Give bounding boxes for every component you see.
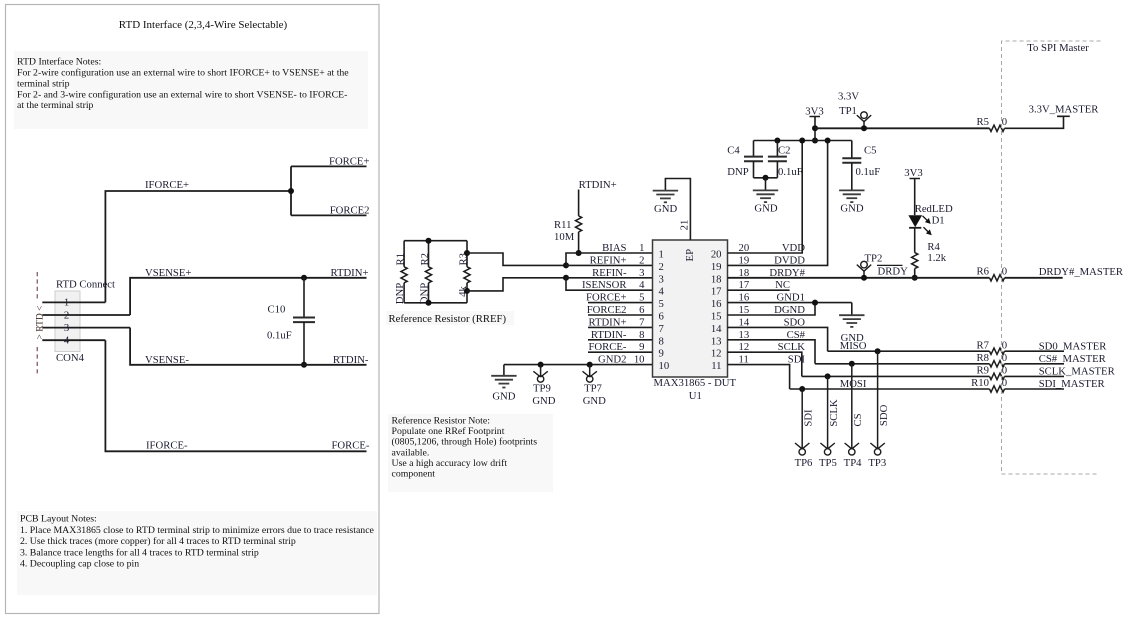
svg-text:MOSI: MOSI xyxy=(840,378,867,390)
test point TP4 CS xyxy=(851,364,853,449)
svg-text:Reference Resistor Note:: Reference Resistor Note: xyxy=(392,415,490,426)
svg-text:20: 20 xyxy=(711,249,722,261)
svg-text:Use a high accuracy low drift: Use a high accuracy low drift xyxy=(392,458,508,469)
wire R5 to 3.3V_MASTER xyxy=(1005,116,1064,128)
svg-text:0: 0 xyxy=(1002,352,1007,364)
junction C10 top xyxy=(301,275,307,281)
svg-text:3. Balance trace lengths for a: 3. Balance trace lengths for all 4 trace… xyxy=(20,547,259,558)
svg-text:4: 4 xyxy=(659,286,665,298)
junction TP6 on SDI xyxy=(799,386,805,392)
junction DVDD rail2 xyxy=(825,138,831,144)
junction TP1 xyxy=(861,125,867,131)
svg-text:1: 1 xyxy=(64,297,69,309)
svg-text:D1: D1 xyxy=(932,215,945,227)
svg-text:2: 2 xyxy=(64,309,69,321)
wire decoupling rail xyxy=(754,140,852,142)
svg-text:IFORCE+: IFORCE+ xyxy=(145,179,189,191)
svg-text:TP2: TP2 xyxy=(865,253,883,265)
ground EP xyxy=(653,190,678,192)
svg-text:IFORCE-: IFORCE- xyxy=(146,439,188,451)
svg-text:DNP: DNP xyxy=(394,283,406,304)
svg-text:RedLED: RedLED xyxy=(915,203,953,215)
svg-text:ISENSOR: ISENSOR xyxy=(582,279,627,291)
svg-text:C10: C10 xyxy=(268,304,286,316)
svg-text:C2: C2 xyxy=(778,145,790,157)
wire ISENSOR pin4 xyxy=(566,278,653,290)
svg-text:terminal strip: terminal strip xyxy=(17,78,70,89)
svg-text:TP5: TP5 xyxy=(819,457,837,469)
svg-text:SDI_MASTER: SDI_MASTER xyxy=(1039,378,1106,390)
svg-text:7: 7 xyxy=(639,316,645,328)
capacitor C4 xyxy=(753,141,755,157)
dashed box To SPI Master xyxy=(1002,41,1101,474)
svg-text:REFIN+: REFIN+ xyxy=(590,254,627,266)
svg-text:10: 10 xyxy=(659,360,670,372)
svg-text:2. Use thick traces (more copp: 2. Use thick traces (more copper) for al… xyxy=(20,536,296,547)
resistor network top rail xyxy=(404,240,467,242)
svg-text:CS: CS xyxy=(852,413,864,426)
junction C10 bottom xyxy=(301,362,307,368)
svg-text:0: 0 xyxy=(1002,365,1007,377)
ground C4C2 xyxy=(765,178,767,191)
junction R3 bottom tap xyxy=(464,288,470,294)
svg-text:0: 0 xyxy=(1002,266,1007,278)
svg-text:RTDIN+: RTDIN+ xyxy=(588,316,626,328)
resistor network bottom rail xyxy=(404,302,467,304)
svg-text:1: 1 xyxy=(639,242,644,254)
svg-text:3: 3 xyxy=(639,267,644,279)
svg-text:> RTD <: > RTD < xyxy=(36,306,46,340)
svg-text:FORCE2: FORCE2 xyxy=(330,205,370,217)
svg-text:R1: R1 xyxy=(395,253,407,265)
svg-text:SD0_MASTER: SD0_MASTER xyxy=(1039,340,1108,352)
svg-text:MISO: MISO xyxy=(840,340,867,352)
wire VSENSE- / RTDIN- net xyxy=(130,328,366,365)
junction TP4 on CS xyxy=(849,361,855,367)
svg-text:For 2-wire configuration use a: For 2-wire configuration use an external… xyxy=(17,67,349,78)
svg-text:C5: C5 xyxy=(864,145,876,157)
svg-text:CS#_MASTER: CS#_MASTER xyxy=(1039,353,1107,365)
op IC U1 body MAX31865 xyxy=(653,240,728,377)
wire FORCE+ stub xyxy=(291,165,367,167)
svg-text:SDI: SDI xyxy=(803,409,815,427)
wire DRDY# pin18 row xyxy=(728,277,990,279)
svg-text:8: 8 xyxy=(639,329,644,341)
svg-text:MAX31865 - DUT: MAX31865 - DUT xyxy=(654,377,737,389)
wire VSENSE+ / RTDIN+ net xyxy=(130,278,366,315)
svg-text:available.: available. xyxy=(392,447,430,458)
svg-text:3.3V_MASTER: 3.3V_MASTER xyxy=(1029,104,1100,116)
wire IFORCE+ net xyxy=(105,191,291,302)
PCB layout notes text block xyxy=(17,511,377,595)
junction 3V3 rail2 xyxy=(812,138,818,144)
resistor R5 xyxy=(990,125,1005,131)
svg-text:R6: R6 xyxy=(977,266,990,278)
wire NC pin17 stub xyxy=(728,289,790,291)
test point TP3 SDO xyxy=(877,351,879,449)
svg-text:17: 17 xyxy=(711,286,722,298)
svg-text:1.2k: 1.2k xyxy=(927,252,946,264)
wire REFIN- pin3 stub xyxy=(566,277,653,279)
resistor R11 xyxy=(578,190,580,216)
resistor R6 xyxy=(990,275,1005,281)
svg-text:16: 16 xyxy=(711,298,722,310)
junction R11 to BIAS xyxy=(576,250,582,256)
IC exposed pad EP wire pin 21 to GND xyxy=(665,179,690,241)
resistor R1 xyxy=(403,241,405,267)
RTD interface section border box xyxy=(6,5,380,614)
wire CON4 pin3 xyxy=(42,327,130,329)
LED D1 RedLED xyxy=(908,215,922,227)
svg-text:PCB Layout Notes:: PCB Layout Notes: xyxy=(20,514,97,525)
svg-text:Populate one RRef Footprint: Populate one RRef Footprint xyxy=(392,426,505,437)
svg-text:R5: R5 xyxy=(977,116,989,128)
wire CON4 pin4 xyxy=(42,339,105,341)
svg-text:DRDY#_MASTER: DRDY#_MASTER xyxy=(1039,266,1124,278)
wire BIAS pin1 xyxy=(566,253,653,265)
junction TP3 on MISO xyxy=(875,348,881,354)
svg-text:10M: 10M xyxy=(554,231,575,243)
svg-text:2: 2 xyxy=(639,254,644,266)
svg-text:For 2- and 3-wire configuratio: For 2- and 3-wire configuration use an e… xyxy=(17,89,347,100)
svg-text:RTDIN-: RTDIN- xyxy=(333,354,369,366)
svg-text:SCLK_MASTER: SCLK_MASTER xyxy=(1039,365,1116,377)
svg-text:FORCE+: FORCE+ xyxy=(329,156,369,168)
svg-text:TP1: TP1 xyxy=(839,105,857,117)
svg-text:GND: GND xyxy=(654,203,677,215)
svg-text:To SPI Master: To SPI Master xyxy=(1027,42,1089,54)
resistor R8 xyxy=(990,361,1005,367)
svg-text:0: 0 xyxy=(1002,340,1007,352)
svg-text:VSENSE-: VSENSE- xyxy=(145,354,189,366)
test point TP5 SCLK xyxy=(827,376,829,449)
test point TP9 xyxy=(538,362,544,368)
svg-text:11: 11 xyxy=(711,360,721,372)
wire DVDD pin19 to rail xyxy=(728,141,828,266)
svg-text:1: 1 xyxy=(659,249,664,261)
svg-text:RTDIN+: RTDIN+ xyxy=(330,267,368,279)
svg-text:4. Decoupling cap close to pin: 4. Decoupling cap close to pin xyxy=(20,559,139,570)
svg-text:6: 6 xyxy=(639,304,645,316)
svg-text:(0805,1206, through Hole) foot: (0805,1206, through Hole) footprints xyxy=(392,437,538,448)
svg-text:7: 7 xyxy=(659,323,665,335)
svg-text:6: 6 xyxy=(659,311,665,323)
wire GND1 pin16 xyxy=(728,302,852,304)
svg-text:FORCE+: FORCE+ xyxy=(586,292,626,304)
wire VDD pin20 to rail xyxy=(728,141,803,254)
svg-text:1. Place MAX31865 close to RTD: 1. Place MAX31865 close to RTD terminal … xyxy=(20,525,375,536)
wire REFIN- from R3 bottom tap xyxy=(467,278,566,291)
svg-text:component: component xyxy=(392,469,436,480)
wire RTDIN+ pin7 stub xyxy=(588,326,653,328)
wire REFIN+ from R3 top tap xyxy=(467,253,566,265)
svg-text:R9: R9 xyxy=(977,365,989,377)
svg-text:R10: R10 xyxy=(971,377,989,389)
junction C4C2 gnd stem xyxy=(763,175,769,181)
wire GND2 pin10 xyxy=(504,364,653,366)
svg-text:GND: GND xyxy=(840,203,863,215)
junction R4 DRDY xyxy=(912,275,918,281)
wire 3.3V rail to TP1 and R5 xyxy=(815,127,990,129)
wire FORCE2 stub xyxy=(291,214,367,216)
svg-text:0.1uF: 0.1uF xyxy=(778,166,803,178)
svg-text:SDO: SDO xyxy=(878,404,890,426)
test point TP6 SDI xyxy=(801,389,803,449)
test point TP2 xyxy=(861,261,868,268)
wire FORCE2 pin6 stub xyxy=(588,314,653,316)
junction VDD rail2 xyxy=(799,138,805,144)
svg-text:R7: R7 xyxy=(977,340,990,352)
svg-text:12: 12 xyxy=(711,348,722,360)
wire REFIN+ pin2 stub xyxy=(566,264,653,266)
svg-text:3V3: 3V3 xyxy=(904,167,922,179)
svg-text:RTD Interface Notes:: RTD Interface Notes: xyxy=(17,56,101,67)
svg-text:GND: GND xyxy=(532,395,555,407)
svg-text:13: 13 xyxy=(711,335,722,347)
resistor R3 xyxy=(466,241,468,267)
svg-text:19: 19 xyxy=(711,261,722,273)
wire CS row xyxy=(815,363,990,365)
svg-text:10: 10 xyxy=(634,354,645,366)
svg-text:GND2: GND2 xyxy=(598,354,627,366)
svg-text:8: 8 xyxy=(659,335,664,347)
svg-text:TP9: TP9 xyxy=(533,383,551,395)
wire SCLK row xyxy=(802,375,990,377)
svg-text:5: 5 xyxy=(659,298,664,310)
svg-text:R8: R8 xyxy=(977,352,989,364)
svg-text:SCLK: SCLK xyxy=(828,399,840,427)
svg-text:9: 9 xyxy=(659,348,664,360)
svg-text:REFIN-: REFIN- xyxy=(592,267,627,279)
resistor R4 xyxy=(914,228,916,253)
svg-text:3.3V: 3.3V xyxy=(838,90,859,102)
label DRDY with overline xyxy=(877,264,903,266)
svg-text:9: 9 xyxy=(639,341,644,353)
svg-text:VSENSE+: VSENSE+ xyxy=(145,267,191,279)
RTD interface notes text block xyxy=(14,51,368,129)
wire CON4 pin1 xyxy=(42,301,105,303)
svg-text:14: 14 xyxy=(711,323,722,335)
ground GND1 net xyxy=(851,303,853,316)
svg-text:TP3: TP3 xyxy=(868,457,886,469)
wire SDO pin14 to MISO row xyxy=(728,327,828,351)
label Reference Resistor (RREF) xyxy=(386,311,514,325)
wire C4-C2 bottom rail xyxy=(754,177,778,179)
svg-text:0.1uF: 0.1uF xyxy=(267,330,292,342)
svg-text:FORCE-: FORCE- xyxy=(331,439,369,451)
svg-text:CON4: CON4 xyxy=(56,352,85,364)
reference resistor note text block xyxy=(388,414,553,492)
junction GND1 DGND xyxy=(812,300,818,306)
svg-text:RTDIN-: RTDIN- xyxy=(591,329,627,341)
resistor R10 xyxy=(990,386,1005,392)
wire RTDIN- pin8 stub xyxy=(588,339,653,341)
test point TP7 xyxy=(587,362,593,368)
svg-text:FORCE-: FORCE- xyxy=(588,341,626,353)
wire IFORCE- / FORCE- net xyxy=(105,340,366,451)
svg-text:GND: GND xyxy=(754,203,777,215)
resistor R7 xyxy=(990,348,1005,354)
svg-text:U1: U1 xyxy=(689,390,702,402)
wire FORCE- pin9 stub xyxy=(588,351,653,353)
svg-text:2: 2 xyxy=(659,261,664,273)
resistor R2 xyxy=(428,241,430,267)
dashed RTD sensor line with arrows xyxy=(36,272,38,376)
svg-text:Reference Resistor (RREF): Reference Resistor (RREF) xyxy=(389,313,507,325)
junction IFORCE+ branch xyxy=(288,188,294,194)
svg-text:4: 4 xyxy=(64,335,70,347)
LED light arrows xyxy=(923,216,930,233)
capacitor C2 xyxy=(776,141,778,157)
wire SDI pin11 to row xyxy=(728,365,790,389)
resistor R9 xyxy=(990,373,1005,379)
svg-text:3: 3 xyxy=(659,273,664,285)
svg-text:DRDY: DRDY xyxy=(878,266,909,278)
svg-text:RTD Interface (2,3,4-Wire Sele: RTD Interface (2,3,4-Wire Selectable) xyxy=(119,19,288,31)
junction 3V3 rail1 xyxy=(812,125,818,131)
wire MISO row xyxy=(828,350,990,352)
capacitor C10 xyxy=(303,278,305,318)
svg-text:SDI: SDI xyxy=(788,354,806,366)
wire FORCE+ branch vertical xyxy=(290,166,292,215)
junction TP5 on SCLK xyxy=(825,373,831,379)
svg-text:0: 0 xyxy=(1002,116,1007,128)
svg-text:RTDIN+: RTDIN+ xyxy=(579,179,617,191)
svg-text:C4: C4 xyxy=(727,145,740,157)
svg-text:5: 5 xyxy=(639,292,644,304)
svg-text:18: 18 xyxy=(711,273,722,285)
svg-text:FORCE2: FORCE2 xyxy=(587,304,627,316)
wire CON4 pin2 xyxy=(42,314,130,316)
svg-text:3V3: 3V3 xyxy=(805,106,823,118)
svg-text:EP: EP xyxy=(684,249,696,262)
wire CS# pin13 to row xyxy=(728,340,816,364)
junction BIAS/REFIN+ xyxy=(563,262,569,268)
svg-text:4: 4 xyxy=(639,279,645,291)
svg-text:at the terminal strip: at the terminal strip xyxy=(17,100,94,111)
svg-text:3: 3 xyxy=(64,322,69,334)
wire R6 to DRDY#_MASTER xyxy=(1005,277,1063,279)
wire DGND pin15 xyxy=(728,303,816,315)
junction REFIN-/ISENSOR xyxy=(563,275,569,281)
svg-text:GND: GND xyxy=(492,391,515,403)
connector CON4 body xyxy=(55,291,80,352)
svg-text:0.1uF: 0.1uF xyxy=(856,166,881,178)
svg-text:15: 15 xyxy=(711,311,722,323)
svg-text:GND: GND xyxy=(583,395,606,407)
svg-text:R2: R2 xyxy=(419,253,431,265)
svg-text:DNP: DNP xyxy=(727,166,748,178)
svg-text:TP4: TP4 xyxy=(844,457,862,469)
capacitor C5 xyxy=(851,141,853,159)
junction C2 top xyxy=(774,138,780,144)
ground GND2 net xyxy=(503,365,505,376)
svg-text:TP7: TP7 xyxy=(584,383,602,395)
ground C5 xyxy=(839,189,864,191)
wire FORCE+ pin5 stub xyxy=(588,302,653,304)
svg-text:0: 0 xyxy=(1002,377,1007,389)
wire SDI row xyxy=(790,388,990,390)
svg-text:BIAS: BIAS xyxy=(602,242,626,254)
wire SCLK pin12 to row xyxy=(728,352,802,376)
svg-text:R11: R11 xyxy=(554,219,571,231)
junction R3 top tap xyxy=(464,250,470,256)
svg-text:21: 21 xyxy=(678,220,690,231)
svg-text:TP6: TP6 xyxy=(795,457,813,469)
